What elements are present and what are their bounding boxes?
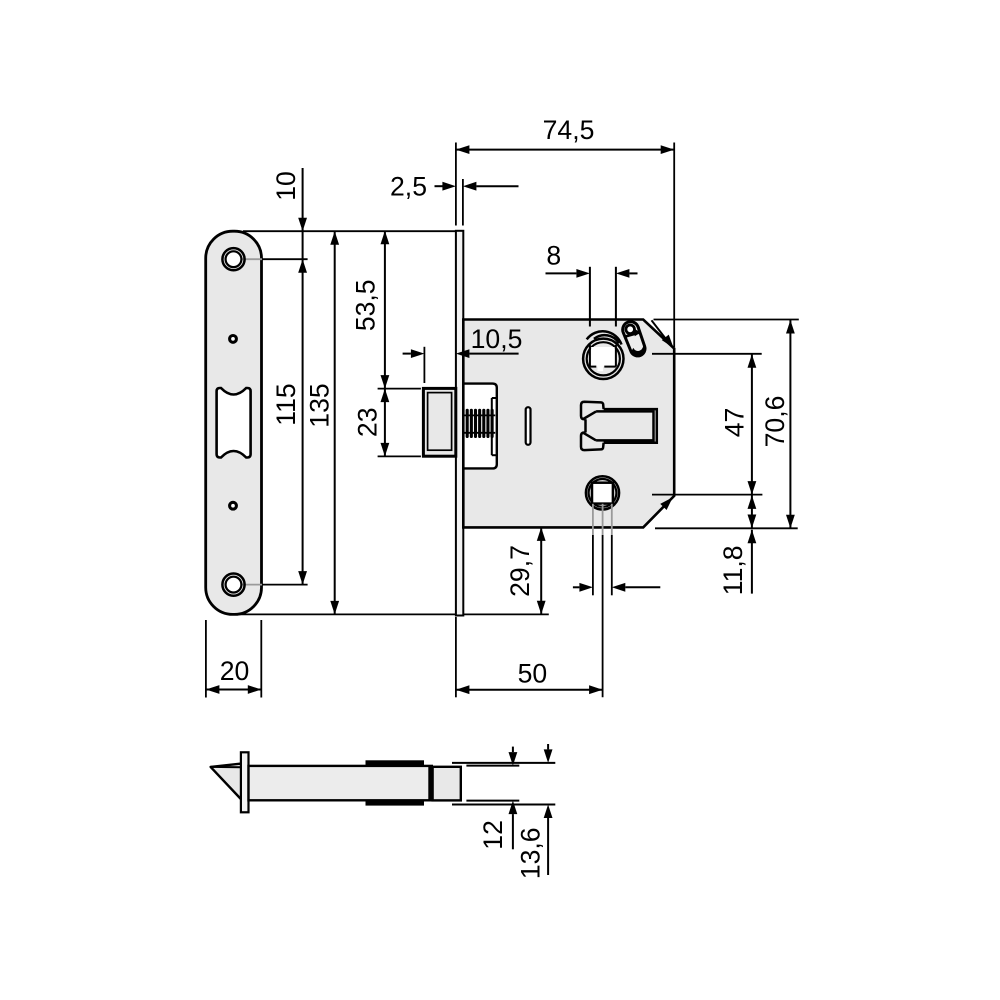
svg-text:53,5: 53,5 xyxy=(350,279,380,331)
svg-text:10,5: 10,5 xyxy=(471,324,523,354)
svg-text:13,6: 13,6 xyxy=(516,827,546,879)
svg-text:50: 50 xyxy=(518,659,548,689)
svg-text:12: 12 xyxy=(478,820,508,850)
svg-text:47: 47 xyxy=(719,408,749,438)
svg-text:74,5: 74,5 xyxy=(543,115,595,145)
svg-text:135: 135 xyxy=(305,383,335,427)
svg-text:8: 8 xyxy=(546,241,561,271)
svg-text:23: 23 xyxy=(352,408,382,438)
svg-text:115: 115 xyxy=(271,383,301,425)
svg-text:11,8: 11,8 xyxy=(718,545,748,595)
svg-text:20: 20 xyxy=(220,656,250,686)
svg-text:2,5: 2,5 xyxy=(390,172,427,202)
svg-text:10: 10 xyxy=(271,171,301,201)
svg-text:70,6: 70,6 xyxy=(760,396,790,448)
svg-text:29,7: 29,7 xyxy=(505,545,535,597)
